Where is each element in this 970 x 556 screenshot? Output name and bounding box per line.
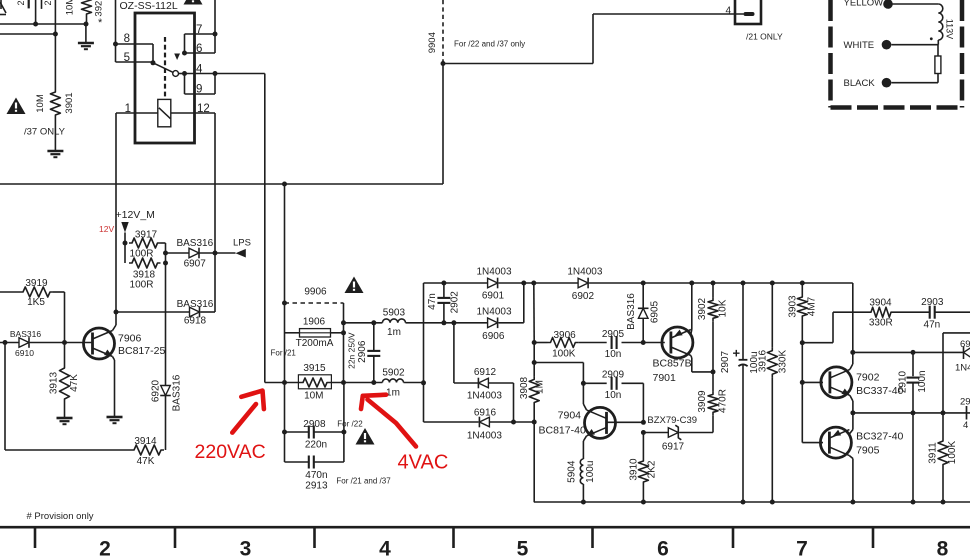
wire bottom rail <box>534 501 970 503</box>
resistor 3914 47K <box>131 436 164 467</box>
svg-text:6916: 6916 <box>474 407 497 418</box>
junction dot (55.4,34) <box>53 32 58 37</box>
relay coil box <box>158 99 171 126</box>
wire 3917/3918 right node <box>161 243 166 450</box>
svg-text:10M: 10M <box>35 94 46 113</box>
svg-text:OZ-SS-112L: OZ-SS-112L <box>120 0 178 12</box>
svg-text:2903: 2903 <box>921 297 944 308</box>
svg-text:4VAC: 4VAC <box>398 452 449 474</box>
svg-text:69: 69 <box>960 339 970 350</box>
wire dropper left rail <box>284 184 286 462</box>
capacitor 2913 470n <box>285 456 344 492</box>
wire zener to base net <box>643 432 668 434</box>
inductor 5903 1m <box>382 308 405 338</box>
annotation arrow 220VAC <box>232 391 264 433</box>
label 7905 <box>856 444 880 456</box>
terminal dot WHITE <box>882 40 892 50</box>
svg-text:2902: 2902 <box>450 291 461 314</box>
junction dot (373.8,322.8) <box>371 320 376 325</box>
connector pin 4 blade <box>744 12 755 16</box>
wire 2905 to 6905 node <box>622 342 644 344</box>
svg-text:For /21 and /37: For /21 and /37 <box>336 477 391 486</box>
wire 6918 row <box>116 311 190 313</box>
svg-text:BC817-25: BC817-25 <box>118 345 165 357</box>
svg-text:100K: 100K <box>947 440 958 464</box>
svg-text:2910: 2910 <box>898 370 909 393</box>
resistor 3901 10M <box>35 89 75 118</box>
transformer coil 113V <box>938 4 943 40</box>
connector pin label 4 <box>725 6 731 17</box>
pin label 6 <box>196 43 202 55</box>
svg-text:6901: 6901 <box>482 291 505 302</box>
svg-text:10M: 10M <box>65 0 76 15</box>
svg-text:6912: 6912 <box>474 367 497 378</box>
wire 2909 to base net <box>622 383 644 422</box>
wire 2910 net to rail <box>912 413 914 502</box>
label +12V_M <box>116 209 155 221</box>
wire emitter row <box>853 412 970 414</box>
wire 9904 to connector <box>443 14 744 64</box>
wire 6906 anode <box>454 322 488 324</box>
junction dot pin4 (215,73.5) <box>213 71 218 76</box>
junction dot (643.4,432.5) <box>641 430 646 435</box>
svg-text:100n: 100n <box>917 370 928 392</box>
junction dot (534.2,422) <box>532 420 537 425</box>
label 7901 <box>653 372 677 384</box>
svg-text:+: + <box>733 346 741 361</box>
wire white to coil <box>891 40 938 45</box>
junction dot (523.8,283) <box>521 281 526 286</box>
svg-text:/37 ONLY: /37 ONLY <box>24 127 66 138</box>
relay switch contact to pin4 <box>179 73 185 75</box>
svg-text:3916: 3916 <box>758 349 769 372</box>
junction dot (852.9,412.9) <box>850 410 855 415</box>
svg-text:3909: 3909 <box>697 390 708 413</box>
svg-text:2K2: 2K2 <box>647 460 658 478</box>
wire 9904 dashed top <box>442 0 444 64</box>
junction dot (852.9,502) <box>850 500 855 505</box>
svg-text:22n 250V: 22n 250V <box>347 332 357 369</box>
svg-text:220VAC: 220VAC <box>195 441 266 463</box>
wire 5903 row <box>344 322 383 324</box>
capacitor 2907 100u (electrolytic) <box>720 283 760 502</box>
wire 7902 base <box>802 381 823 383</box>
label BC337-40 <box>856 385 903 397</box>
svg-text:7904: 7904 <box>558 410 582 422</box>
relay switch NO contact circle <box>173 71 179 77</box>
label For /21 <box>271 349 297 358</box>
svg-text:1N4003: 1N4003 <box>467 430 502 441</box>
capacitor 2905 10n <box>602 329 625 360</box>
label 7902 <box>856 372 880 384</box>
resistor 3916 330K <box>758 283 789 502</box>
wire 7904 emitter <box>583 436 586 459</box>
svg-text:For /22: For /22 <box>337 420 363 429</box>
svg-text:2909: 2909 <box>602 370 625 381</box>
svg-text:8: 8 <box>937 538 949 556</box>
svg-text:7906: 7906 <box>118 333 142 345</box>
svg-text:5: 5 <box>517 538 529 556</box>
wire 7904 base <box>607 421 644 423</box>
label BC327-40 <box>856 431 903 443</box>
svg-text:2: 2 <box>16 0 26 5</box>
svg-text:5903: 5903 <box>383 308 406 319</box>
junction dot (64.5,342.5) <box>62 340 67 345</box>
junction dot (913,352.4) <box>911 350 916 355</box>
wire minus row <box>489 421 534 423</box>
wire 3915 row <box>265 382 383 384</box>
svg-text:6902: 6902 <box>572 291 595 302</box>
wire 3909 to zener <box>679 432 713 434</box>
junction dot (343.9,432) <box>341 430 346 435</box>
pin label 1 <box>125 103 131 115</box>
svg-text:3910: 3910 <box>629 458 640 481</box>
svg-text:2906: 2906 <box>357 340 368 363</box>
resistor 3917 100R <box>129 230 161 260</box>
diode 6901 1N4003 <box>476 266 511 301</box>
svg-text:3919: 3919 <box>25 278 48 289</box>
label BC817-40 <box>539 425 586 437</box>
wire 7906 emitter <box>113 357 115 418</box>
wire 7901 emitter riser <box>690 283 693 334</box>
wire 7902 emitter <box>850 395 853 413</box>
wire 3904 feed <box>802 312 868 343</box>
pin label 4 <box>196 64 203 76</box>
junction dot (913,412.9) <box>911 410 916 415</box>
svg-text:BC817-40: BC817-40 <box>539 425 586 437</box>
junction dot (643.4,502) <box>641 500 646 505</box>
ground (below 3901) <box>47 151 63 157</box>
wire 3906 to 2905 <box>578 342 606 344</box>
wire 6912 feed <box>454 323 479 383</box>
svg-text:6905: 6905 <box>650 300 661 323</box>
junction dot (583.4,502) <box>581 500 586 505</box>
svg-text:10n: 10n <box>605 349 622 360</box>
wire 7905 collector <box>849 456 853 502</box>
svg-text:BAS316: BAS316 <box>172 374 183 411</box>
svg-text:100u: 100u <box>585 461 596 483</box>
wire 3921 bottom to ground <box>85 17 88 43</box>
junction dot (443.9,283) <box>441 281 446 286</box>
svg-text:3904: 3904 <box>869 298 892 309</box>
svg-text:YELLOW: YELLOW <box>844 0 884 9</box>
pin 4/9 bracket <box>185 74 216 95</box>
wire mains row y=184 <box>0 183 443 185</box>
svg-text:2907: 2907 <box>720 350 731 373</box>
svg-text:1m: 1m <box>387 327 401 338</box>
wire 5904 to rail <box>582 484 584 502</box>
junction dot pin7 (215,34) <box>213 32 218 37</box>
wire fuse right riser <box>343 303 345 383</box>
svg-text:47n: 47n <box>427 293 438 310</box>
junction dot (534.2,342.5) <box>532 340 537 345</box>
wire 5903 to bridge <box>406 322 454 324</box>
wire 3917/3918 left node <box>124 243 126 263</box>
svg-text:6: 6 <box>196 43 202 55</box>
resistor 3918 100R <box>129 258 161 291</box>
junction dot (443.9,322.8) <box>441 320 446 325</box>
junction dot (443,63.5) <box>441 61 446 66</box>
svg-text:3902: 3902 <box>697 297 708 320</box>
label 113V <box>944 19 954 39</box>
wire pin7 up <box>214 0 216 34</box>
diode 6910 BAS316 <box>10 329 41 358</box>
wire 3904 to 2903 <box>894 311 930 313</box>
junction dot (453.9,322.8) <box>451 320 456 325</box>
svg-text:6: 6 <box>657 538 669 556</box>
junction dot (284.5,303) <box>282 301 287 306</box>
terminal dot BLACK <box>882 78 892 88</box>
fuse (transformer box) <box>935 56 941 74</box>
svg-text:2: 2 <box>43 0 53 5</box>
svg-text:3906: 3906 <box>553 330 576 341</box>
svg-text:1M: 1M <box>535 380 546 394</box>
wire dropper right rail <box>343 383 345 463</box>
svg-text:6907: 6907 <box>184 259 207 270</box>
label For /22 and /37 only <box>454 40 525 49</box>
wire 6910 to base <box>30 342 93 344</box>
svg-text:1N4003: 1N4003 <box>467 391 502 402</box>
capacitor stub 2 top-left <box>42 0 53 9</box>
label LPS <box>233 238 251 249</box>
label 9906 <box>304 287 327 298</box>
label T200mA <box>296 338 334 349</box>
transistor Q 7902 BC337-40 <box>821 367 852 398</box>
pin label 5 <box>124 52 130 64</box>
svg-text:BAS316: BAS316 <box>626 293 637 330</box>
wire 6912 to minus <box>488 383 513 422</box>
wire fuse to black <box>891 74 938 83</box>
svg-text:100K: 100K <box>552 349 576 360</box>
svg-text:# Provision only: # Provision only <box>27 511 94 522</box>
wire 7904 collector branch <box>534 363 583 384</box>
wire pin8/5 left feed x=115.5 <box>115 0 117 62</box>
svg-text:47n: 47n <box>924 320 941 331</box>
junction dot (5,342.5) <box>3 340 8 345</box>
wire top rail drop <box>852 283 854 352</box>
junction dot (691.8,283) <box>689 281 694 286</box>
junction dot (373.8,382.5) <box>371 380 376 385</box>
pin 8 bracket <box>116 44 154 62</box>
svg-text:470n: 470n <box>305 470 327 481</box>
svg-text:5902: 5902 <box>382 367 405 378</box>
svg-text:1N4: 1N4 <box>955 363 970 374</box>
svg-text:2913: 2913 <box>305 481 328 492</box>
svg-text:10n: 10n <box>605 390 622 401</box>
resistor 3909 470R <box>697 372 729 433</box>
label 1906 <box>303 317 326 328</box>
relay switch common contact dot <box>151 60 156 65</box>
wire 3913 to ground <box>64 402 66 418</box>
capacitor 2910 100n <box>898 352 929 413</box>
capacitor 2909 10n <box>602 370 625 402</box>
svg-text:*: * <box>98 17 103 29</box>
wire yellow to coil <box>892 3 939 5</box>
svg-text:3: 3 <box>240 538 252 556</box>
svg-text:100R: 100R <box>130 249 154 260</box>
partial capacitor at right edge <box>960 397 970 432</box>
pin label 8 <box>124 33 130 45</box>
warning triangle (For /22) <box>356 428 375 445</box>
svg-text:330R: 330R <box>869 318 893 329</box>
junction dot (284.5,432) <box>282 430 287 435</box>
capacitor 2902 47n <box>427 283 461 323</box>
wire 9904 riser <box>442 64 444 185</box>
label BLACK <box>844 78 876 89</box>
wire 7902 base net <box>801 343 803 383</box>
transistor Q 7904 BC817-40 <box>585 407 616 438</box>
resistor 3904 330R <box>868 298 894 329</box>
junction dot (423.5,382.8) <box>421 380 426 385</box>
svg-text:BC327-40: BC327-40 <box>856 431 903 443</box>
diode 6916 1N4003 (points left) <box>467 407 502 441</box>
label YELLOW <box>844 0 884 9</box>
ruler line <box>0 526 970 529</box>
junction dot (802.3,283) <box>800 281 805 286</box>
svg-text:1N4003: 1N4003 <box>476 307 511 318</box>
svg-text:330K: 330K <box>777 349 788 373</box>
transistor Q 7901 BC857B (PNP) <box>662 327 693 358</box>
resistor 3903 4M7 <box>788 283 818 343</box>
transistor Q 7905 BC327-40 (PNP) <box>820 427 851 458</box>
label For /21 and /37 <box>336 477 391 486</box>
wire 7906 collector <box>113 312 117 331</box>
junction dot (125,243) <box>123 241 128 246</box>
wire vout row <box>853 351 964 353</box>
svg-text:6920: 6920 <box>151 379 162 402</box>
power flag +12V_M <box>121 222 128 243</box>
svg-text:1K5: 1K5 <box>27 297 45 308</box>
svg-text:1N4003: 1N4003 <box>567 266 602 277</box>
svg-text:5904: 5904 <box>567 460 578 483</box>
label 7906 <box>118 333 142 345</box>
pin label 9 <box>196 84 202 96</box>
junction dot (343.5,382.5) <box>341 380 346 385</box>
wire 5902 to bridge <box>404 382 424 384</box>
resistor 3908 1M <box>519 376 546 405</box>
wire coil to fuse <box>937 45 939 56</box>
ground (3913) <box>57 418 73 424</box>
svg-text:BAS316: BAS316 <box>177 299 214 310</box>
label 12V (red) <box>99 224 114 234</box>
diode 6912 1N4003 (points left) <box>467 367 502 401</box>
wire AC2 riser x=423.5 <box>424 283 479 422</box>
svg-text:1N4003: 1N4003 <box>476 266 511 277</box>
svg-text:9: 9 <box>196 84 202 96</box>
junction dot (743,283) <box>741 281 746 286</box>
wire 7901 collector <box>691 356 713 372</box>
wire top rail right <box>589 282 853 284</box>
svg-text:113V: 113V <box>944 19 954 39</box>
svg-text:4: 4 <box>963 420 968 431</box>
svg-text:12V: 12V <box>99 224 114 234</box>
svg-text:100R: 100R <box>130 280 154 291</box>
svg-text:For /21: For /21 <box>271 349 297 358</box>
diode 6920 BAS316 (vertical) <box>151 374 183 411</box>
junction dot (165.5,263) <box>163 261 168 266</box>
capacitor 2908 220n <box>285 419 344 451</box>
junction dot (343.5,322.8) <box>341 320 346 325</box>
junction dot (772.3,283) <box>770 281 775 286</box>
transistor Q 7906 BC817-25 <box>84 328 115 359</box>
junction dot (513.5,422) <box>511 420 516 425</box>
resistor 3915 10M (boxed) <box>298 363 331 402</box>
svg-text:BC857B: BC857B <box>653 358 692 370</box>
LPS arrow <box>236 249 246 258</box>
junction dot (802.3,342.7) <box>800 340 805 345</box>
capacitor 2xxx stub top-left <box>16 0 29 8</box>
junction dot (913,502) <box>911 500 916 505</box>
junction dot (343.5,332.8) <box>341 330 346 335</box>
svg-text:3913: 3913 <box>49 371 60 394</box>
svg-text:7: 7 <box>796 538 808 556</box>
wire 6901 to rail <box>499 282 534 284</box>
svg-text:8: 8 <box>124 33 130 45</box>
svg-text:47K: 47K <box>69 374 80 392</box>
wire top rail left <box>424 282 488 284</box>
wire 220VAC feed (x=5) <box>5 343 131 451</box>
svg-text:10M: 10M <box>304 391 323 402</box>
resistor 3902 10K <box>697 283 729 372</box>
warning triangle /37 <box>7 98 26 115</box>
svg-text:2905: 2905 <box>602 329 625 340</box>
pin label 7 <box>196 24 202 36</box>
right edge box / net <box>943 333 970 413</box>
warning triangle (near 9906) <box>345 277 364 294</box>
junction dot (533.8,283) <box>531 281 536 286</box>
wire pin1 (coil left) <box>116 113 158 312</box>
svg-text:/21 ONLY: /21 ONLY <box>746 32 783 42</box>
svg-text:3908: 3908 <box>519 376 530 399</box>
partial diode at right edge <box>955 339 970 374</box>
svg-text:6918: 6918 <box>184 316 207 327</box>
junction dot (165.5,253) <box>163 251 168 256</box>
junction dot (943,502) <box>941 500 946 505</box>
wire 6906 riser <box>499 283 524 323</box>
svg-text:4M7: 4M7 <box>807 296 818 316</box>
wire stub x=35.6 <box>35 0 37 24</box>
coil polarity dot <box>930 37 933 40</box>
junction dot (85,24) <box>84 22 89 27</box>
svg-text:3917: 3917 <box>135 230 158 241</box>
wire 2903 out <box>935 311 970 313</box>
ground (near 3921) <box>78 43 94 49</box>
annotation arrow 4VAC <box>361 395 416 447</box>
wire 7902 collector <box>850 352 853 369</box>
svg-text:LPS: LPS <box>233 238 251 249</box>
relay pin6 contact dot <box>182 51 187 56</box>
junction dot (802.3,382.4) <box>800 380 805 385</box>
junction dot (534.2,362.5) <box>532 360 537 365</box>
diode 6907 BAS316 <box>176 238 213 270</box>
junction dot (583.4,383.3) <box>581 381 586 386</box>
wire base row to 7901 <box>643 342 665 344</box>
label BC857B <box>653 358 692 370</box>
svg-text:3901: 3901 <box>64 92 75 113</box>
label 9904 <box>427 32 438 53</box>
wire top-left row 1 (y=24) <box>0 23 85 25</box>
wire 6910 row <box>0 342 19 344</box>
transformer connector box (dashed) <box>831 0 963 108</box>
svg-text:5: 5 <box>124 52 130 64</box>
junction dot (772.3,502) <box>770 500 775 505</box>
svg-text:BAS316: BAS316 <box>10 329 41 339</box>
resistor 3911 100K <box>928 413 959 502</box>
svg-text:220n: 220n <box>305 440 327 451</box>
wire LPS row <box>166 252 236 254</box>
svg-text:9906: 9906 <box>304 287 327 298</box>
ground (7906 emitter) <box>107 417 123 423</box>
